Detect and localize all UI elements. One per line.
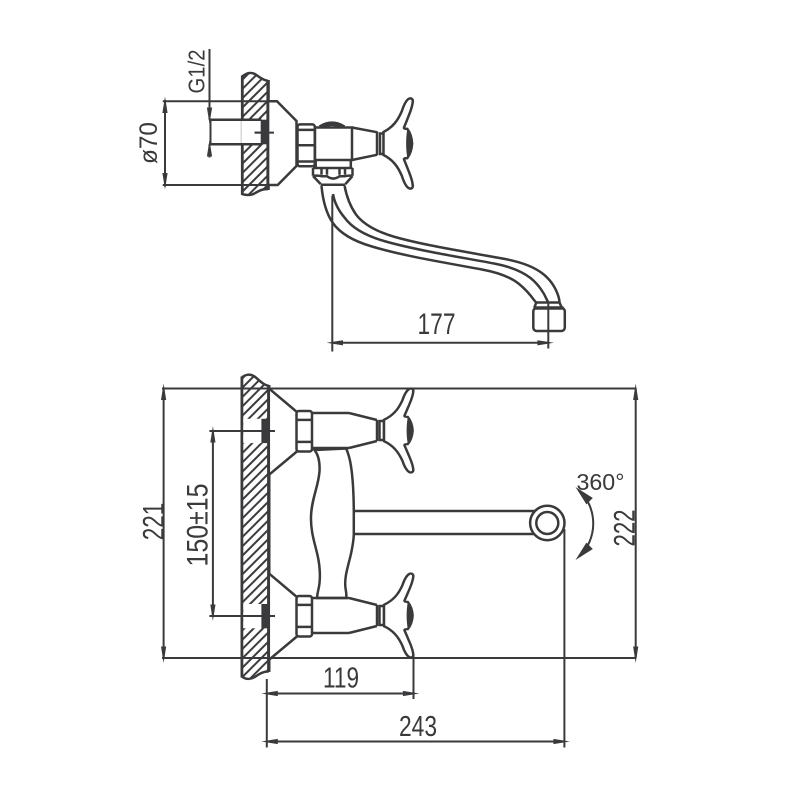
svg-text:150±15: 150±15	[182, 484, 215, 567]
svg-text:177: 177	[418, 308, 456, 341]
svg-text:243: 243	[399, 711, 437, 743]
svg-text:360°: 360°	[577, 469, 625, 495]
svg-text:119: 119	[323, 663, 359, 695]
svg-text:222: 222	[608, 510, 641, 547]
svg-text:G1/2: G1/2	[184, 50, 210, 94]
svg-text:ø70: ø70	[135, 122, 163, 164]
svg-text:221: 221	[137, 503, 170, 541]
